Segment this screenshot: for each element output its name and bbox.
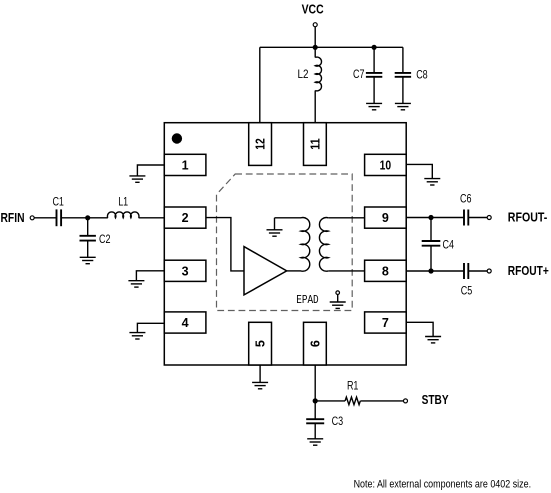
wire C6 to RFOUT- terminal — [468, 217, 487, 219]
wire node A to L1 — [88, 217, 108, 219]
wire VCC terminal to rail — [314, 27, 316, 48]
wire primary top to ground — [275, 217, 302, 219]
wire R1 to STBY terminal — [360, 400, 403, 402]
wire junction to R1 — [315, 400, 345, 402]
svg-text:Note: All external components: Note: All external components are 0402 s… — [354, 478, 531, 490]
svg-text:5: 5 — [254, 340, 268, 347]
svg-text:VCC: VCC — [302, 1, 324, 16]
svg-text:6: 6 — [309, 340, 323, 347]
EPAD ground stem — [337, 295, 339, 303]
svg-text:8: 8 — [382, 264, 389, 278]
RFIN terminal — [30, 216, 34, 220]
RFOUT- terminal — [487, 216, 491, 220]
ground C2 — [80, 257, 96, 263]
capacitor C3 — [306, 419, 324, 423]
wire rail to C7 — [373, 47, 375, 73]
svg-text:C2: C2 — [99, 232, 111, 246]
op-amp A1 — [244, 247, 287, 295]
ground pin 5 — [252, 382, 268, 388]
STBY terminal — [404, 399, 408, 403]
svg-text:RFOUT-: RFOUT- — [508, 209, 548, 224]
wire C3 to ground — [314, 423, 316, 439]
capacitor C1 — [57, 209, 62, 226]
EPAD ground terminal — [336, 291, 340, 295]
inductor L2 — [315, 57, 321, 91]
ground (EPAD) — [330, 302, 346, 308]
wire pin 1 to ground — [137, 165, 164, 176]
wire pin 9 to C6 — [406, 217, 464, 219]
wire op-amp output to primary — [287, 270, 301, 272]
capacitor C2 — [80, 236, 96, 241]
transformer T1 primary winding — [301, 218, 310, 272]
svg-text:STBY: STBY — [422, 392, 449, 407]
wire rail to pin 12 — [259, 47, 261, 122]
node A junction — [85, 215, 90, 220]
capacitor C8 — [395, 73, 411, 77]
svg-text:C1: C1 — [52, 194, 64, 208]
wire VCC rail — [260, 46, 403, 48]
pin 8 — [365, 260, 407, 281]
wire pin 2 to op-amp input — [206, 218, 244, 271]
wire rail to C8 — [402, 47, 404, 73]
svg-text:R1: R1 — [347, 379, 359, 393]
wire pin 10 to ground — [406, 164, 432, 178]
svg-text:L1: L1 — [118, 194, 128, 208]
junction VCC rail / L2 — [313, 45, 318, 50]
wire primary ground stem — [274, 218, 276, 230]
svg-text:EPAD: EPAD — [296, 294, 319, 307]
pin 5 — [249, 322, 272, 365]
wire secondary to pin 9 — [328, 217, 364, 219]
wire rail to L2 — [314, 47, 316, 57]
ground C8 — [395, 103, 411, 109]
wire junction to C3 — [314, 401, 316, 419]
svg-text:4: 4 — [182, 316, 189, 330]
inductor L1 — [107, 212, 139, 218]
pin 6 — [304, 322, 327, 365]
wire RFIN to C1 — [34, 217, 56, 219]
wire L2 to pin 11 — [314, 91, 316, 123]
svg-text:C7: C7 — [353, 67, 365, 81]
RFOUT+ terminal — [487, 269, 491, 273]
dashed internal boundary — [217, 174, 353, 311]
wire pin 6 down — [314, 365, 316, 401]
svg-text:11: 11 — [309, 138, 323, 150]
capacitor C7 — [366, 73, 382, 77]
pin 11 — [304, 123, 327, 166]
svg-text:C3: C3 — [332, 414, 344, 428]
svg-text:C8: C8 — [416, 68, 428, 82]
svg-text:C4: C4 — [443, 237, 455, 251]
pin 7 — [365, 312, 407, 333]
svg-text:C5: C5 — [461, 283, 473, 297]
transformer T1 secondary winding — [319, 218, 328, 272]
pin 1 marker dot — [172, 133, 182, 143]
svg-text:RFOUT+: RFOUT+ — [508, 263, 549, 278]
wire C4 bottom — [430, 246, 432, 271]
svg-text:10: 10 — [380, 159, 392, 173]
wire pin 7 to ground — [406, 322, 433, 336]
svg-text:L2: L2 — [298, 67, 309, 81]
wire secondary to pin 8 — [328, 270, 364, 272]
pin 9 — [365, 207, 407, 228]
svg-text:RFIN: RFIN — [1, 210, 25, 225]
wire pin 8 to C5 — [406, 270, 464, 272]
wire C4 top — [430, 218, 432, 242]
VCC terminal — [313, 23, 317, 27]
ground C7 — [366, 103, 382, 109]
wire C5 to RFOUT+ terminal — [468, 270, 487, 272]
capacitor C6 — [464, 210, 468, 226]
pin 10 — [365, 154, 407, 175]
svg-text:C6: C6 — [460, 191, 472, 205]
resistor R1 — [345, 397, 360, 405]
ground pin 4 — [129, 333, 145, 339]
wire pin 3 to ground — [136, 271, 164, 281]
svg-text:9: 9 — [382, 211, 389, 225]
pin 12 — [249, 123, 272, 166]
ground C3 — [307, 439, 323, 445]
wire pin 5 to ground — [259, 365, 261, 382]
svg-text:3: 3 — [182, 264, 189, 278]
pin 4 — [164, 312, 206, 333]
svg-text:7: 7 — [382, 316, 389, 330]
junction pin 6 / C3 / R1 — [313, 398, 318, 403]
wire L1 to pin 2 — [139, 217, 165, 219]
wire pin 4 to ground — [137, 323, 164, 332]
wire C7 to ground — [373, 77, 375, 104]
wire node A to C2 — [87, 218, 89, 236]
junction pin 8 / C4 — [428, 268, 433, 273]
wire C8 to ground — [402, 77, 404, 104]
IC body U1 — [164, 123, 406, 365]
pin 3 — [164, 260, 206, 281]
ground pin 10 — [424, 179, 440, 185]
junction pin 9 / C4 — [428, 215, 433, 220]
capacitor C4 — [422, 241, 441, 246]
ground pin 1 — [129, 176, 145, 182]
svg-text:2: 2 — [182, 211, 189, 225]
ground (transformer primary) — [267, 230, 283, 236]
wire C1 to node A — [61, 217, 88, 219]
ground pin 3 — [128, 281, 144, 287]
pin 2 — [164, 207, 206, 228]
junction rail / C7 — [372, 45, 377, 50]
capacitor C5 — [464, 263, 468, 279]
pin 1 — [164, 154, 206, 175]
wire C2 to ground — [87, 240, 89, 257]
svg-text:1: 1 — [182, 159, 189, 173]
svg-text:12: 12 — [254, 138, 268, 150]
ground pin 7 — [425, 337, 441, 343]
